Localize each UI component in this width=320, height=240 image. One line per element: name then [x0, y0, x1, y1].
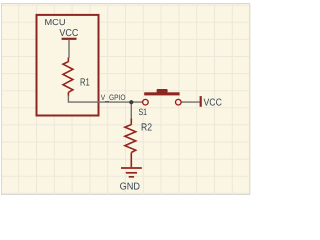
svg-text:R2: R2 [141, 123, 152, 134]
wire junction to R2 [130, 102, 132, 119]
switch S1 right pin circle [176, 99, 182, 105]
svg-text:VCC: VCC [204, 97, 222, 108]
svg-text:VCC: VCC [59, 28, 78, 39]
svg-text:MCU: MCU [45, 17, 66, 27]
power port VCC (right) bar [200, 96, 202, 107]
svg-text:GND: GND [120, 182, 140, 193]
svg-text:S1: S1 [139, 107, 148, 117]
switch S1 left pin circle [143, 99, 149, 105]
wire VCC bar to R1 [68, 40, 70, 58]
ground symbol [121, 168, 142, 177]
wire R1 to node V_GPIO [68, 95, 142, 102]
resistor R1 [63, 58, 73, 96]
sheet symbol MCU [37, 15, 99, 116]
wire S1 to VCC (right) [182, 101, 200, 103]
power port VCC (top) bar [62, 38, 77, 40]
resistor R2 [125, 119, 136, 168]
svg-text:V_GPIO: V_GPIO [101, 93, 126, 102]
svg-text:R1: R1 [80, 78, 90, 89]
junction node [129, 100, 133, 104]
switch S1 actuator bar [144, 92, 179, 95]
switch S1 button bump [157, 89, 168, 93]
